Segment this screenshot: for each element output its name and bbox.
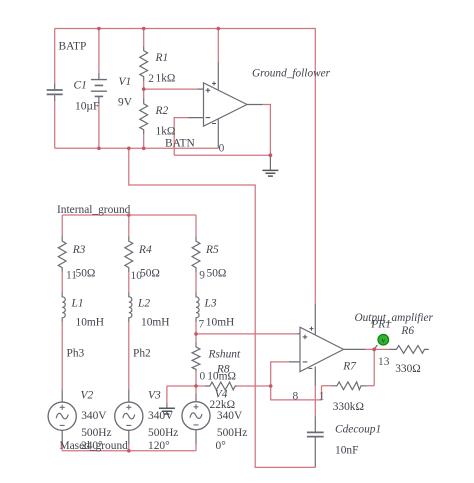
source V3 (115, 402, 143, 430)
junction BATN down (127, 147, 131, 151)
inductor L2 (129, 293, 132, 323)
svg-text:Cdecoup1: Cdecoup1 (335, 424, 381, 436)
svg-text:330Ω: 330Ω (395, 363, 421, 375)
resistor R3 (58, 237, 66, 273)
wire output to ground node (174, 154, 270, 156)
wire Mased_ground bottom (62, 450, 196, 452)
capacitor Cdecoup1 (314, 417, 316, 468)
svg-text:120°: 120° (148, 440, 170, 452)
wire BATN bottom rail (55, 147, 219, 149)
wire U1 positive supply from BATP (217, 29, 219, 63)
junction R8 to feedback node 8 (269, 384, 273, 388)
op-amp U2 (300, 327, 344, 372)
wire Internal_ground rail (62, 214, 196, 216)
svg-text:Output_amplifier: Output_amplifier (355, 312, 434, 324)
battery V1 (98, 73, 100, 103)
svg-text:L1: L1 (71, 298, 84, 310)
junction R1 top (142, 27, 146, 31)
wire column Ph3 R3-L1-V2 (61, 215, 63, 451)
junction V1 top (97, 27, 101, 31)
wire left branch to C1 (54, 29, 56, 149)
resistor Rshunt (192, 343, 200, 372)
svg-text:340V: 340V (81, 410, 107, 422)
svg-text:10nF: 10nF (335, 445, 358, 457)
svg-text:L2: L2 (137, 298, 150, 310)
svg-text:10mH: 10mH (76, 317, 104, 329)
svg-text:8: 8 (293, 391, 299, 403)
svg-text:BATN: BATN (165, 138, 195, 150)
svg-text:Internal_ground: Internal_ground (57, 204, 131, 216)
svg-text:0: 0 (200, 371, 206, 383)
resistor R2 (140, 99, 148, 134)
svg-text:V3: V3 (148, 390, 161, 402)
source V3 pin stubs (128, 390, 130, 445)
wire Rshunt node to U2 noninverting input (196, 333, 298, 335)
svg-text:R4: R4 (138, 244, 152, 256)
wire U1 inverting input feedback (174, 118, 188, 156)
svg-text:Ph3: Ph3 (67, 348, 85, 360)
source V4 (182, 402, 210, 430)
resistor R5 (192, 237, 200, 273)
svg-text:PR1: PR1 (370, 319, 391, 331)
probe PR1 pointer (375, 345, 378, 349)
junction R2 bottom (142, 147, 146, 151)
svg-text:L3: L3 (204, 298, 217, 310)
ground at U1 output (269, 155, 271, 170)
svg-text:9V: 9V (118, 97, 133, 109)
svg-text:500Hz: 500Hz (217, 427, 247, 439)
svg-text:Rshunt: Rshunt (208, 349, 241, 361)
svg-text:50Ω: 50Ω (76, 268, 96, 280)
svg-text:340V: 340V (148, 410, 174, 422)
svg-text:0°: 0° (216, 440, 226, 452)
svg-text:V2: V2 (81, 390, 94, 402)
svg-text:R1: R1 (155, 52, 169, 64)
svg-text:R7: R7 (342, 361, 357, 373)
wire U2 output to R6 (365, 348, 389, 350)
svg-text:0: 0 (219, 143, 225, 155)
svg-text:10µF: 10µF (75, 101, 99, 113)
wire R1-R2 node to op-amp U1 noninverting input (144, 88, 198, 90)
resistor R7 horizontal (331, 382, 367, 390)
svg-text:330kΩ: 330kΩ (333, 401, 364, 413)
wire U2 feedback loop through R7 (271, 349, 375, 400)
junction Rshunt top node 7 (194, 332, 198, 336)
svg-text:V1: V1 (119, 76, 132, 88)
svg-text:R2: R2 (155, 105, 169, 117)
svg-text:R5: R5 (205, 244, 219, 256)
resistor R1 (140, 46, 148, 81)
svg-text:1: 1 (319, 391, 325, 403)
resistor R4 (125, 237, 133, 273)
source V4 pin stubs (195, 394, 197, 445)
svg-text:Ph2: Ph2 (133, 348, 151, 360)
svg-text:13: 13 (378, 356, 390, 368)
svg-text:7: 7 (199, 318, 205, 330)
op-amp U1 pin stubs (189, 62, 263, 148)
svg-text:50Ω: 50Ω (207, 268, 227, 280)
svg-text:Ground_follower: Ground_follower (252, 68, 331, 80)
svg-text:50Ω: 50Ω (140, 268, 160, 280)
source V2 pin stubs (61, 390, 63, 445)
junction V1 bottom (97, 147, 101, 151)
wire column Ph1 R5-L3-Rshunt-V4 (195, 215, 197, 451)
op-amp U1 (204, 82, 248, 127)
junction rail R4 (127, 213, 131, 217)
svg-text:240°: 240° (81, 440, 103, 452)
wire BATN down across to Cdecoup1 bottom (129, 148, 315, 467)
svg-text:340V: 340V (217, 410, 243, 422)
junction V3 bottom (127, 449, 131, 453)
wire Rshunt bottom to ground stub (167, 386, 196, 404)
wire column Ph2 R4-L2-V3 (128, 215, 130, 451)
inductor L1 (62, 293, 65, 323)
svg-text:500Hz: 500Hz (148, 427, 178, 439)
svg-text:BATP: BATP (59, 41, 87, 53)
svg-text:10mΩ: 10mΩ (207, 371, 236, 383)
resistor R6 horizontal (389, 346, 428, 354)
junction R1-R2 node (142, 87, 146, 91)
source V2 (48, 402, 76, 430)
resistor R8 horizontal (205, 382, 238, 390)
svg-text:10mH: 10mH (206, 317, 234, 329)
wire U1 output down (263, 105, 271, 156)
svg-text:C1: C1 (74, 80, 87, 92)
wire R8 leads (196, 385, 271, 387)
junction U2 output node 13 (372, 348, 376, 352)
junction Rshunt bottom node 0 (194, 384, 198, 388)
ground below Rshunt node (166, 404, 168, 409)
junction ground node 0 (269, 153, 273, 157)
capacitor C1 (54, 84, 56, 102)
wire battery V1 branch (98, 29, 100, 149)
svg-text:v: v (382, 337, 386, 345)
svg-text:1kΩ: 1kΩ (156, 126, 176, 138)
wire BATP top rail and right vertical rail (55, 29, 316, 304)
svg-text:R6: R6 (400, 325, 414, 337)
wire R1 R2 branch (143, 29, 145, 149)
svg-text:R3: R3 (72, 244, 86, 256)
svg-text:9: 9 (199, 270, 205, 282)
svg-text:500Hz: 500Hz (81, 427, 111, 439)
svg-text:1kΩ: 1kΩ (156, 73, 176, 85)
op-amp U2 pin stubs (289, 304, 365, 386)
svg-text:10mH: 10mH (141, 317, 169, 329)
wire U2 negative supply to Cdecoup1 (314, 386, 316, 417)
probe PR1 (378, 334, 389, 345)
junction U1 V+ (217, 27, 221, 31)
svg-text:2: 2 (148, 73, 154, 85)
inductor L3 (196, 293, 199, 323)
